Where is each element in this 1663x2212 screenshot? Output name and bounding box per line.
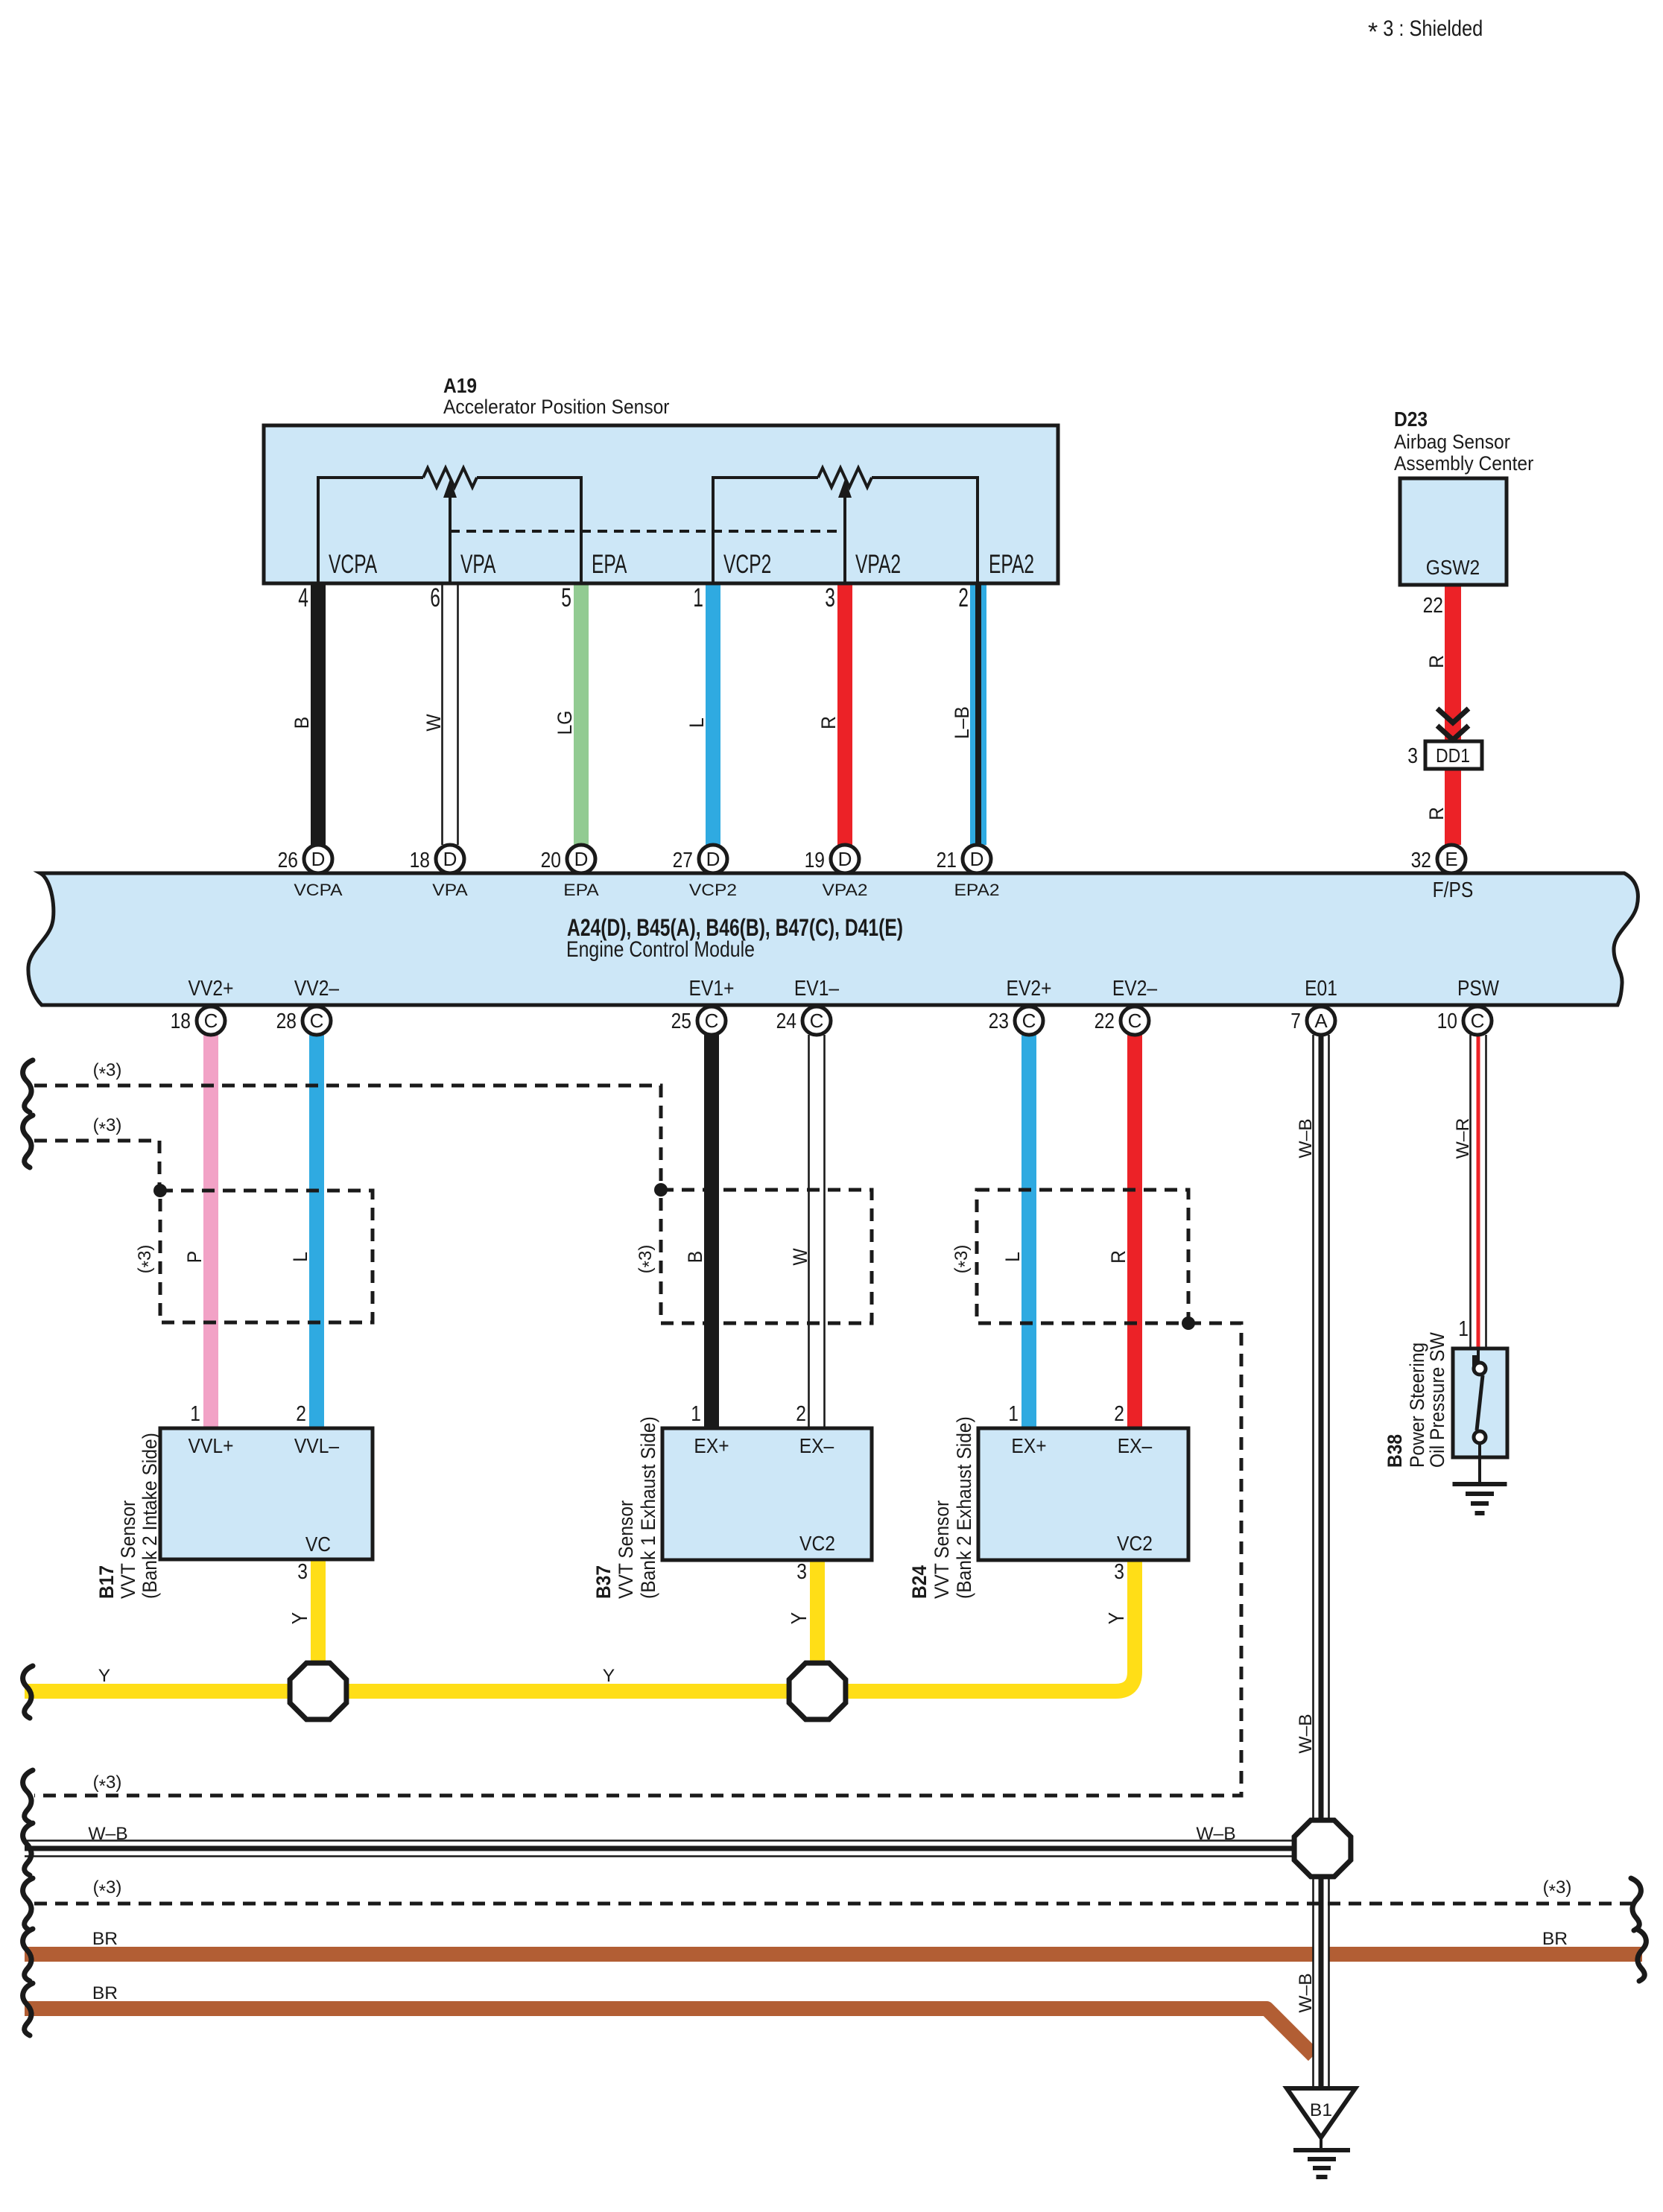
- svg-text:W–B: W–B: [1296, 1714, 1316, 1753]
- svg-text:BR: BR: [92, 1929, 118, 1949]
- svg-text:Y: Y: [1105, 1612, 1129, 1624]
- svg-text:W: W: [422, 714, 445, 732]
- svg-text:Y: Y: [98, 1666, 110, 1686]
- svg-text:R: R: [817, 716, 840, 729]
- svg-text:20: 20: [541, 849, 561, 872]
- svg-text:21: 21: [937, 849, 957, 872]
- svg-text:25: 25: [671, 1010, 691, 1033]
- svg-text:BR: BR: [1542, 1929, 1568, 1949]
- svg-text:1: 1: [691, 1402, 701, 1426]
- svg-text:W–B: W–B: [88, 1824, 127, 1844]
- svg-text:2: 2: [1114, 1402, 1124, 1426]
- svg-text:EX–: EX–: [799, 1434, 834, 1457]
- svg-text:VPA: VPA: [432, 881, 468, 899]
- svg-text:22: 22: [1423, 594, 1443, 618]
- svg-text:EV2+: EV2+: [1007, 977, 1052, 1001]
- svg-text:24: 24: [776, 1010, 796, 1033]
- svg-text:L: L: [1001, 1252, 1024, 1262]
- svg-text:C: C: [705, 1010, 719, 1032]
- svg-text:D23: D23: [1394, 408, 1428, 431]
- svg-text:D: D: [706, 848, 720, 870]
- svg-text:B: B: [291, 717, 313, 729]
- svg-text:DD1: DD1: [1436, 744, 1470, 767]
- svg-text:L: L: [289, 1252, 311, 1262]
- svg-text:W–B: W–B: [1196, 1824, 1235, 1844]
- svg-text:D: D: [838, 848, 852, 870]
- svg-text:D: D: [970, 848, 984, 870]
- svg-text:1: 1: [1008, 1402, 1019, 1426]
- svg-text:P: P: [183, 1251, 206, 1263]
- svg-text:VCPA: VCPA: [329, 550, 378, 579]
- svg-text:A19: A19: [443, 374, 477, 397]
- svg-text:VV2+: VV2+: [189, 977, 234, 1001]
- svg-text:4: 4: [298, 583, 308, 612]
- svg-text:VCP2: VCP2: [689, 881, 737, 899]
- svg-text:19: 19: [805, 849, 825, 872]
- svg-text:B17: B17: [95, 1565, 118, 1599]
- svg-text:Airbag Sensor: Airbag Sensor: [1394, 431, 1510, 453]
- svg-text:23: 23: [989, 1010, 1009, 1033]
- svg-text:EPA: EPA: [592, 550, 627, 579]
- svg-text:Power Steering: Power Steering: [1406, 1343, 1428, 1468]
- svg-text:EV1–: EV1–: [794, 977, 840, 1001]
- svg-text:Assembly Center: Assembly Center: [1394, 452, 1533, 475]
- svg-text:Engine Control Module: Engine Control Module: [566, 937, 755, 962]
- svg-text:VC2: VC2: [1117, 1532, 1153, 1555]
- svg-text:B: B: [684, 1251, 706, 1263]
- svg-text:5: 5: [561, 583, 571, 612]
- svg-text:2: 2: [958, 583, 969, 612]
- svg-text:BR: BR: [92, 1983, 118, 2003]
- svg-text:27: 27: [673, 849, 693, 872]
- svg-text:VVT Sensor: VVT Sensor: [615, 1500, 637, 1599]
- svg-text:F/PS: F/PS: [1433, 878, 1474, 902]
- svg-text:LG: LG: [554, 711, 576, 735]
- svg-text:(Bank 2 Exhaust Side): (Bank 2 Exhaust Side): [953, 1416, 975, 1599]
- svg-text:1: 1: [190, 1402, 200, 1426]
- svg-text:VVL–: VVL–: [294, 1434, 340, 1457]
- svg-text:3: 3: [796, 1560, 807, 1584]
- svg-text:3: 3: [1114, 1560, 1124, 1584]
- svg-text:EPA2: EPA2: [954, 881, 999, 899]
- svg-text:EV1+: EV1+: [689, 977, 735, 1001]
- svg-text:Y: Y: [288, 1612, 312, 1624]
- svg-text:C: C: [310, 1010, 324, 1032]
- svg-text:2: 2: [796, 1402, 806, 1426]
- svg-text:1: 1: [693, 583, 703, 612]
- svg-text:E: E: [1445, 848, 1457, 870]
- svg-text:EX–: EX–: [1118, 1434, 1153, 1457]
- svg-text:D: D: [574, 848, 589, 870]
- svg-text:28: 28: [276, 1010, 297, 1033]
- svg-text:7: 7: [1290, 1010, 1301, 1033]
- svg-text:(Bank 1 Exhaust Side): (Bank 1 Exhaust Side): [637, 1416, 659, 1599]
- svg-text:E01: E01: [1305, 977, 1337, 1001]
- svg-text:VPA2: VPA2: [855, 550, 901, 579]
- svg-text:L–B: L–B: [951, 706, 973, 739]
- svg-text:VCP2: VCP2: [723, 550, 771, 579]
- svg-text:R: R: [1425, 807, 1448, 820]
- svg-text:EPA2: EPA2: [989, 550, 1034, 579]
- svg-text:EV2–: EV2–: [1112, 977, 1158, 1001]
- svg-text:W–B: W–B: [1296, 1973, 1316, 2012]
- svg-text:GSW2: GSW2: [1426, 556, 1480, 579]
- svg-text:C: C: [204, 1010, 218, 1032]
- svg-text:VVL+: VVL+: [189, 1434, 234, 1457]
- svg-text:Oil Pressure SW: Oil Pressure SW: [1426, 1332, 1448, 1468]
- svg-text:EX+: EX+: [694, 1434, 729, 1457]
- svg-text:26: 26: [278, 849, 298, 872]
- svg-text:32: 32: [1411, 849, 1431, 872]
- svg-text:Y: Y: [603, 1666, 615, 1686]
- svg-text:VPA2: VPA2: [822, 881, 867, 899]
- svg-text:C: C: [1022, 1010, 1036, 1032]
- svg-text:R: R: [1425, 655, 1448, 668]
- svg-text:Accelerator Position Sensor: Accelerator Position Sensor: [443, 396, 670, 418]
- svg-text:(Bank 2 Intake Side): (Bank 2 Intake Side): [139, 1433, 161, 1599]
- svg-text:VC: VC: [305, 1533, 331, 1556]
- svg-text:2: 2: [296, 1402, 306, 1426]
- svg-text:B37: B37: [592, 1565, 615, 1599]
- svg-text:18: 18: [410, 849, 430, 872]
- svg-text:VC2: VC2: [799, 1532, 835, 1555]
- svg-text:C: C: [1471, 1010, 1485, 1032]
- svg-text:EX+: EX+: [1011, 1434, 1046, 1457]
- svg-text:W–B: W–B: [1296, 1118, 1316, 1158]
- svg-text:Y: Y: [788, 1612, 811, 1624]
- svg-text:VCPA: VCPA: [294, 881, 343, 899]
- svg-text:22: 22: [1095, 1010, 1115, 1033]
- svg-text:D: D: [311, 848, 326, 870]
- svg-text:3: 3: [825, 583, 835, 612]
- svg-text:10: 10: [1437, 1010, 1457, 1033]
- svg-text:VVT Sensor: VVT Sensor: [931, 1500, 953, 1599]
- svg-text:R: R: [1107, 1250, 1130, 1264]
- svg-text:D: D: [443, 848, 457, 870]
- svg-text:W: W: [789, 1248, 811, 1266]
- svg-text:C: C: [810, 1010, 824, 1032]
- svg-text:EPA: EPA: [563, 881, 599, 899]
- svg-text:A: A: [1314, 1010, 1328, 1032]
- svg-text:L: L: [685, 717, 708, 728]
- svg-text:B24: B24: [908, 1565, 931, 1599]
- svg-text:B1: B1: [1310, 2100, 1332, 2120]
- svg-text:B38: B38: [1384, 1434, 1406, 1468]
- svg-text:PSW: PSW: [1457, 977, 1500, 1001]
- svg-text:VPA: VPA: [460, 550, 496, 579]
- svg-text:3: 3: [297, 1560, 308, 1584]
- svg-text:C: C: [1128, 1010, 1142, 1032]
- svg-text:18: 18: [171, 1010, 191, 1033]
- svg-text:VVT Sensor: VVT Sensor: [117, 1500, 139, 1599]
- svg-text:6: 6: [430, 583, 440, 612]
- svg-text:1: 1: [1458, 1317, 1469, 1341]
- svg-text:W–R: W–R: [1453, 1118, 1473, 1159]
- svg-text:VV2–: VV2–: [294, 977, 340, 1001]
- svg-text:3: 3: [1407, 744, 1418, 768]
